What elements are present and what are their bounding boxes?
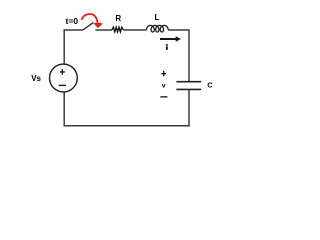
wire: right rail down to capacitor [188,29,190,81]
inductor L coil [147,25,169,32]
capacitor polarity plus: h-bar [161,73,166,74]
resistor R zigzag [112,27,123,32]
label i dot [166,44,168,46]
svg-text:R: R [115,14,121,23]
switch t=0 open arm [83,23,94,31]
wire: bottom-left corner up to source bottom [63,92,65,127]
capacitor C top plate [176,81,201,83]
current arrow i shaft [160,38,177,40]
current arrow head [176,36,181,42]
capacitor C bottom plate [176,88,201,90]
bottom return wire [64,125,190,127]
wire: source top up to switch corner [63,29,65,64]
svg-text:C: C [207,80,213,89]
red switch-closing arc [82,14,98,23]
source polarity minus bar [59,85,66,86]
source polarity plus: v-bar [62,69,63,75]
wire: switch contact to resistor [95,29,112,31]
capacitor polarity minus bar [160,96,167,97]
capacitor polarity plus: v-bar [163,71,164,76]
svg-text:v: v [162,83,166,90]
wire: resistor to inductor [123,29,146,31]
svg-text:Vs: Vs [31,74,41,83]
voltage source Vs circle [50,64,78,92]
svg-text:t=0: t=0 [66,16,79,26]
wire: inductor to top-right corner [168,29,189,31]
source polarity plus: h-bar [60,71,65,72]
wire: top-left horizontal from corner to switch pivot [64,29,83,31]
wire: capacitor to bottom-right corner [188,89,190,126]
label i stem [166,46,168,49]
red arrowhead [94,23,103,28]
svg-text:L: L [155,13,160,22]
